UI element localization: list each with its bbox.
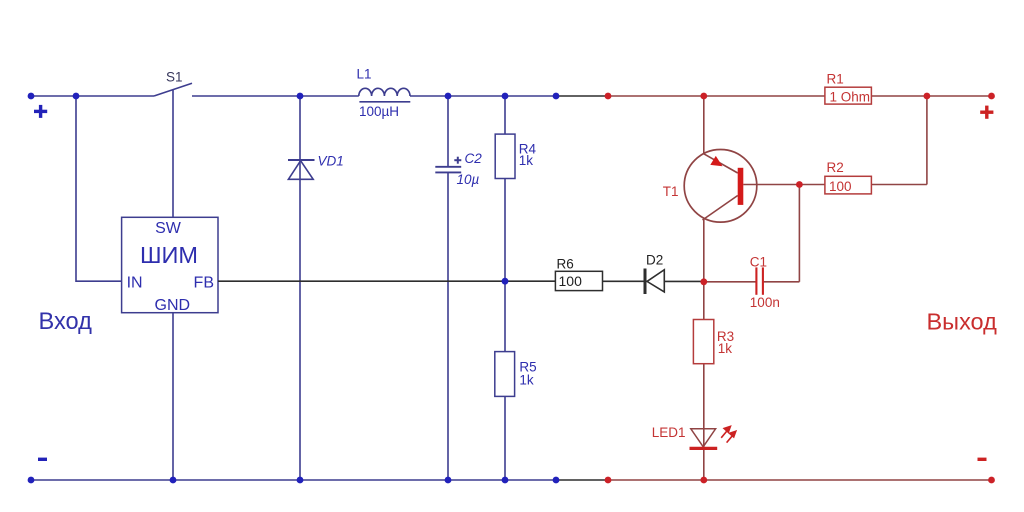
svg-text:100: 100 [829, 179, 852, 194]
svg-text:1k: 1k [519, 373, 534, 388]
svg-text:1k: 1k [718, 341, 733, 356]
svg-text:10µ: 10µ [457, 172, 480, 187]
svg-text:C2: C2 [465, 151, 483, 166]
svg-text:R6: R6 [557, 257, 574, 272]
svg-text:1k: 1k [519, 153, 534, 168]
svg-text:SW: SW [155, 220, 182, 237]
svg-text:Вход: Вход [39, 309, 93, 335]
svg-text:100n: 100n [750, 295, 780, 310]
svg-text:L1: L1 [357, 67, 372, 82]
svg-text:IN: IN [127, 275, 143, 292]
svg-text:D2: D2 [646, 253, 663, 268]
svg-text:R1: R1 [827, 72, 844, 87]
svg-text:Выход: Выход [927, 309, 998, 335]
svg-text:S1: S1 [166, 70, 183, 85]
svg-text:C1: C1 [750, 255, 767, 270]
svg-text:R2: R2 [827, 160, 844, 175]
svg-text:T1: T1 [663, 184, 679, 199]
svg-text:100: 100 [559, 273, 583, 289]
svg-text:100µH: 100µH [359, 104, 399, 119]
svg-text:VD1: VD1 [318, 154, 344, 169]
svg-text:ШИМ: ШИМ [140, 242, 198, 268]
svg-text:FB: FB [194, 275, 214, 292]
svg-text:1 Ohm: 1 Ohm [830, 90, 871, 105]
svg-text:GND: GND [155, 297, 191, 314]
svg-text:LED1: LED1 [652, 425, 686, 440]
